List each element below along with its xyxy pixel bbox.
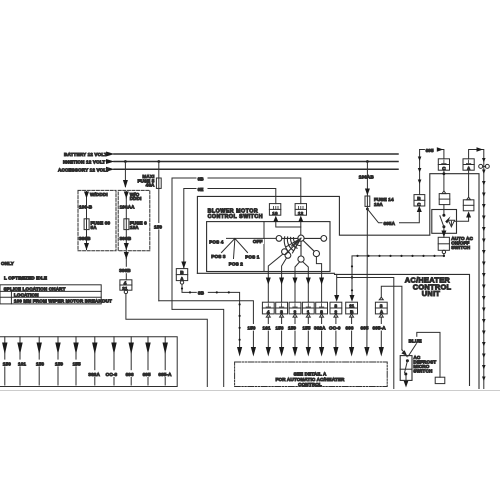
component AC defrost micro switch body [400,356,412,381]
svg-text:OFF: OFF [253,239,263,244]
node arrow feed in W/O DDDI box [125,192,127,199]
svg-text:OC-0: OC-0 [329,326,341,331]
node arrow into B/A connector [181,262,186,269]
svg-text:10: 10 [272,211,278,216]
svg-text:695: 695 [143,372,151,377]
connector row box 3 (159) [289,302,301,314]
svg-text:IGNITION 12 VOLT: IGNITION 12 VOLT [63,160,105,165]
connector B/C (695) [414,195,425,206]
node pin triangle above left component [442,191,446,194]
label 300B at connector [119,267,134,273]
wire W/DDDI fuse output [86,230,88,250]
symbol circle-line-circle OCO [479,164,483,168]
wire inner box divider [263,222,265,272]
wire accessory 12 volt feed line [114,168,398,170]
node accessory feed arrow [106,167,115,172]
node ignition junction to MAXI fuse [157,160,160,163]
node contact circle pos lower-left b [285,253,291,259]
svg-text:BATTERY 12 VOLT: BATTERY 12 VOLT [64,152,107,157]
scan bottom edge [0,390,500,392]
wire extension line C2 to AC unit left edge [337,274,394,388]
svg-text:15A: 15A [130,225,139,230]
node pin circle under 4/21 [124,290,127,293]
wire 695A diagonal and run to B/C connector [367,209,419,223]
svg-text:BLUE: BLUE [409,338,422,343]
wire 300B from 4/21 down and right [126,294,207,387]
wire 0B below B/A turning right [182,284,240,348]
svg-text:11: 11 [349,303,354,308]
svg-text:150: 150 [3,361,11,366]
svg-text:0B: 0B [198,291,205,296]
node arrow into connector row box 7 [350,295,355,302]
node pin triangle above right component [467,197,471,200]
svg-text:695: 695 [361,326,369,331]
node arrow up into right component [466,211,471,217]
wire 150 from MAXI fuse down [158,188,160,300]
wire C connector down to component [443,170,445,191]
node pin circle under B/A [180,281,183,284]
node pin triangles under connector row [266,314,383,317]
component bottom-left harness box [0,337,177,387]
node contact circle pos lower-left a [282,249,288,255]
wire switch bottom to auto AC connector [443,228,445,237]
node arrow 150 bottom [251,347,256,357]
component blower motor control switch outer box [197,174,479,389]
wire blower exits to connector row with arrows [268,273,321,302]
svg-text:156: 156 [36,361,44,366]
node arrow W/DDDI output [84,243,89,250]
svg-text:POS 4: POS 4 [209,240,224,245]
wire harness drops group 1 [5,337,165,385]
svg-text:5A: 5A [91,225,98,230]
node contact circle pos lower-right [313,251,319,257]
svg-text:155: 155 [303,326,311,331]
node ignition junction to fuse 14 [366,160,369,163]
svg-text:SWITCH: SWITCH [451,245,471,250]
label BLUE [408,337,424,343]
node micro switch top contact [406,359,409,362]
wire dotted bus to connector row box 7 [352,256,444,299]
wire ignition 12 volt feed line [114,161,398,163]
connector row box 7 (696) [346,302,358,314]
node arrow up into connector 10 [273,216,278,222]
svg-text:L OPTIMIZED IDLE: L OPTIMIZED IDLE [4,275,47,280]
component SEE DETAIL A dashed box [235,362,388,387]
connector row box 2 (156) [276,302,288,314]
node dots on dotted bus [351,255,445,292]
svg-text:LOCATION: LOCATION [14,292,39,297]
svg-text:159: 159 [55,361,63,366]
node arrow into micro switch [401,350,407,356]
svg-text:161: 161 [18,361,26,366]
svg-text:150: 150 [154,224,162,229]
node tick marks on right dashed vertical [482,158,486,381]
wire A connector down to component [468,170,470,197]
node arrow above fuse 14 [365,189,370,196]
wire rotary wiper arcs [293,238,300,246]
svg-text:300B: 300B [79,236,91,241]
svg-text:OC-8: OC-8 [106,372,118,377]
wire rotary spokes [289,240,315,256]
wire 695 top run with label [420,150,444,159]
wire rotary exit 5 [316,257,321,274]
svg-text:POS 1: POS 1 [245,255,260,260]
wire 300B below W/O DDDI box [125,251,127,259]
wire rotary exit 3 [295,262,300,273]
wire auto AC connector to dotted bus [443,254,445,256]
wire 150 lower run to bottom arrow [159,301,254,349]
node contact circle common [298,235,304,241]
svg-text:155: 155 [73,361,81,366]
wire blower box bottom edge [197,272,334,274]
node junction below fuse 14 [366,208,369,211]
node arrows on exit wires [266,278,324,285]
label 0E [197,186,208,192]
label 150 [154,223,164,229]
wire D to micro switch and box 8 [381,286,402,350]
wire 695 dashed vertical from top [419,150,421,195]
node arrows at bottom of drops [266,347,384,357]
svg-text:696: 696 [346,326,354,331]
wire drops from connector row to bottom arrows [268,317,381,348]
svg-text:10A: 10A [374,202,383,207]
svg-text:SWITCH: SWITCH [413,369,433,374]
node arrow into W/O DDDI box [123,180,128,188]
svg-text:695-A: 695-A [373,326,387,331]
svg-text:695: 695 [426,148,434,153]
svg-text:695-A: 695-A [158,372,172,377]
connector top C [438,159,449,170]
wire rotary top row link [282,237,298,239]
component W/O DDDI dashed option box [118,190,150,250]
connector top A [463,159,474,170]
component connector block under A [463,200,474,211]
svg-text:300B: 300B [120,236,132,241]
node contact circle pos bottom [298,256,304,262]
svg-text:CONTROL SWITCH: CONTROL SWITCH [208,214,263,220]
connector row box 1 (161) [262,302,274,314]
node arrow up into connector 12 [298,216,303,222]
node arrow on A top run [477,147,484,152]
svg-text:B: B [180,270,184,275]
label wire names above bottom arrows [246,324,386,331]
label 0B lower [197,289,208,295]
connector 4/21 [120,280,132,290]
node tick marks on 695 vertical [418,157,422,185]
svg-text:CONTROL: CONTROL [298,382,322,387]
fuse FUSE 6 15A symbol [124,219,129,230]
connector row box 8 (695-A) [375,302,387,314]
svg-text:B: B [417,196,421,201]
svg-text:W/DDDI: W/DDDI [90,192,108,197]
connector B/A [176,269,187,281]
wire rotary exit 4 [303,262,308,273]
node arrow 0B bottom [237,347,242,357]
svg-text:161: 161 [263,326,271,331]
node ignition feed arrow [106,159,115,164]
svg-text:300B: 300B [119,268,131,273]
svg-text:196AB: 196AB [359,175,375,180]
node switch bottom contact [442,225,445,228]
svg-text:UNIT: UNIT [422,289,441,298]
wire 196AB ignition to fuse 14 [366,162,368,197]
label OFF [252,239,264,244]
svg-text:100 MM FROM WIPER MOTOR BREAKO: 100 MM FROM WIPER MOTOR BREAKOUT [14,298,112,303]
wire BLUE to terminal [409,332,441,377]
node contact circle right [321,236,327,242]
wire W/O DDDI fuse output [125,230,127,250]
node arrow up into B/C connector [417,206,422,212]
svg-text:302A: 302A [88,372,100,377]
wire 0B from corner to connector 12 [172,178,301,309]
svg-text:159: 159 [288,326,296,331]
node switch blade arrow [445,216,450,223]
svg-text:696: 696 [126,372,134,377]
label 0B [197,175,208,181]
node arrow below micro switch [404,381,409,388]
svg-text:B: B [350,309,354,314]
wire component to switch box [443,205,445,215]
svg-text:3: 3 [380,303,383,308]
node ignition junction to W/O DDDI [124,160,127,163]
wire A connector top run [469,150,484,389]
node arrow into auto AC connector [441,231,446,238]
wire POS fan lines [222,238,277,258]
node switch top contact [442,214,445,217]
wire 300B to connector [125,259,127,280]
svg-text:ONLY: ONLY [1,261,14,266]
label harness wires row 1 [1,360,83,367]
wire connector 10 to rotary [276,222,301,227]
connector 10 above blower switch [274,206,278,209]
connector auto AC on/off switch [438,237,449,250]
node arrow W/O DDDI output [124,243,129,250]
node pin triangle above box 8 [379,297,383,300]
component rotary switch contacts [276,235,327,262]
wire micro switch bottom lead [405,376,407,386]
wire W/O DDDI feed to fuse [125,198,127,219]
fuse FUSE 60 5A symbol [84,219,89,230]
connector row box 5 (302A) [316,302,328,314]
wire rotary exit 2 [282,258,287,273]
component blower switch inner box [207,222,330,272]
wire rotary extra spokes [286,238,301,253]
wire ignition drop to MAXI fuse [158,162,160,179]
svg-text:196AA: 196AA [120,205,136,210]
svg-text:150: 150 [248,326,256,331]
wire lead into micro switch top contact [402,350,407,357]
svg-text:695A: 695A [384,221,396,226]
wire switch blade [440,216,444,227]
fuse FUSE 14 10A symbol [365,196,370,206]
svg-text:A: A [380,309,384,314]
component splice location chart table [0,285,101,304]
svg-text:12: 12 [298,211,304,216]
wire micro switch blade [405,361,408,373]
node contact circle left [276,236,282,242]
svg-text:ACCESSORY 12 VOLT: ACCESSORY 12 VOLT [58,167,109,172]
svg-text:SPLICE LOCATION CHART: SPLICE LOCATION CHART [4,286,66,291]
node pin circle under auto AC connector [442,250,445,253]
wire 0B lower run to bottom [172,309,224,386]
node battery feed arrow [106,152,115,157]
wire battery 12 volt feed line [114,153,398,155]
component W/DDDI dashed option box [78,190,116,250]
svg-text:C: C [417,202,421,207]
connector 12 above blower switch [299,206,303,209]
connector row box 6 (OC-0) [330,302,342,314]
node arrow into connector row box 6 [334,295,339,302]
node junction dots on 0B lower wire [181,287,241,340]
node arrow feed in W/DDDI box [86,192,88,199]
component terminal block at BLUE wire end [435,377,445,383]
svg-text:POS 2: POS 2 [229,261,244,266]
wire connector 12 to rotary common [300,222,302,235]
node micro switch bottom contact [404,373,407,376]
wire rotary exit 1 [268,254,283,273]
svg-text:40A: 40A [146,183,155,188]
svg-text:3: 3 [335,303,338,308]
label harness wires row 2 [87,370,176,377]
component auto AC switch contact box [432,210,457,234]
wire ignition drop to W/O DDDI box [124,162,126,187]
connector row box 4 (155) [302,302,314,314]
wire 0E from corner to connector 10 [184,189,276,269]
svg-text:302A: 302A [314,326,326,331]
svg-text:196-B: 196-B [79,205,93,210]
wire switch output right [451,217,468,227]
node arrow on 695 top run [437,147,444,152]
wire AC unit top edge / C1 [335,274,470,385]
svg-text:DDDI: DDDI [130,196,142,201]
node junction wire A meets C drop [443,172,446,175]
wire 695 drop to bottom arrow [366,206,369,348]
fuse MAXI FUSE 5 40A symbol [156,178,161,188]
svg-text:POS 3: POS 3 [211,254,226,259]
node harness arrows [2,343,168,355]
svg-text:0B: 0B [198,176,205,181]
node arrow 300B [124,252,129,259]
svg-text:156: 156 [276,326,284,331]
component connector block under C [439,194,450,205]
component switch actuator triangle [448,220,454,227]
wire W/DDDI feed to fuse [86,198,88,219]
svg-text:0E: 0E [198,187,204,192]
